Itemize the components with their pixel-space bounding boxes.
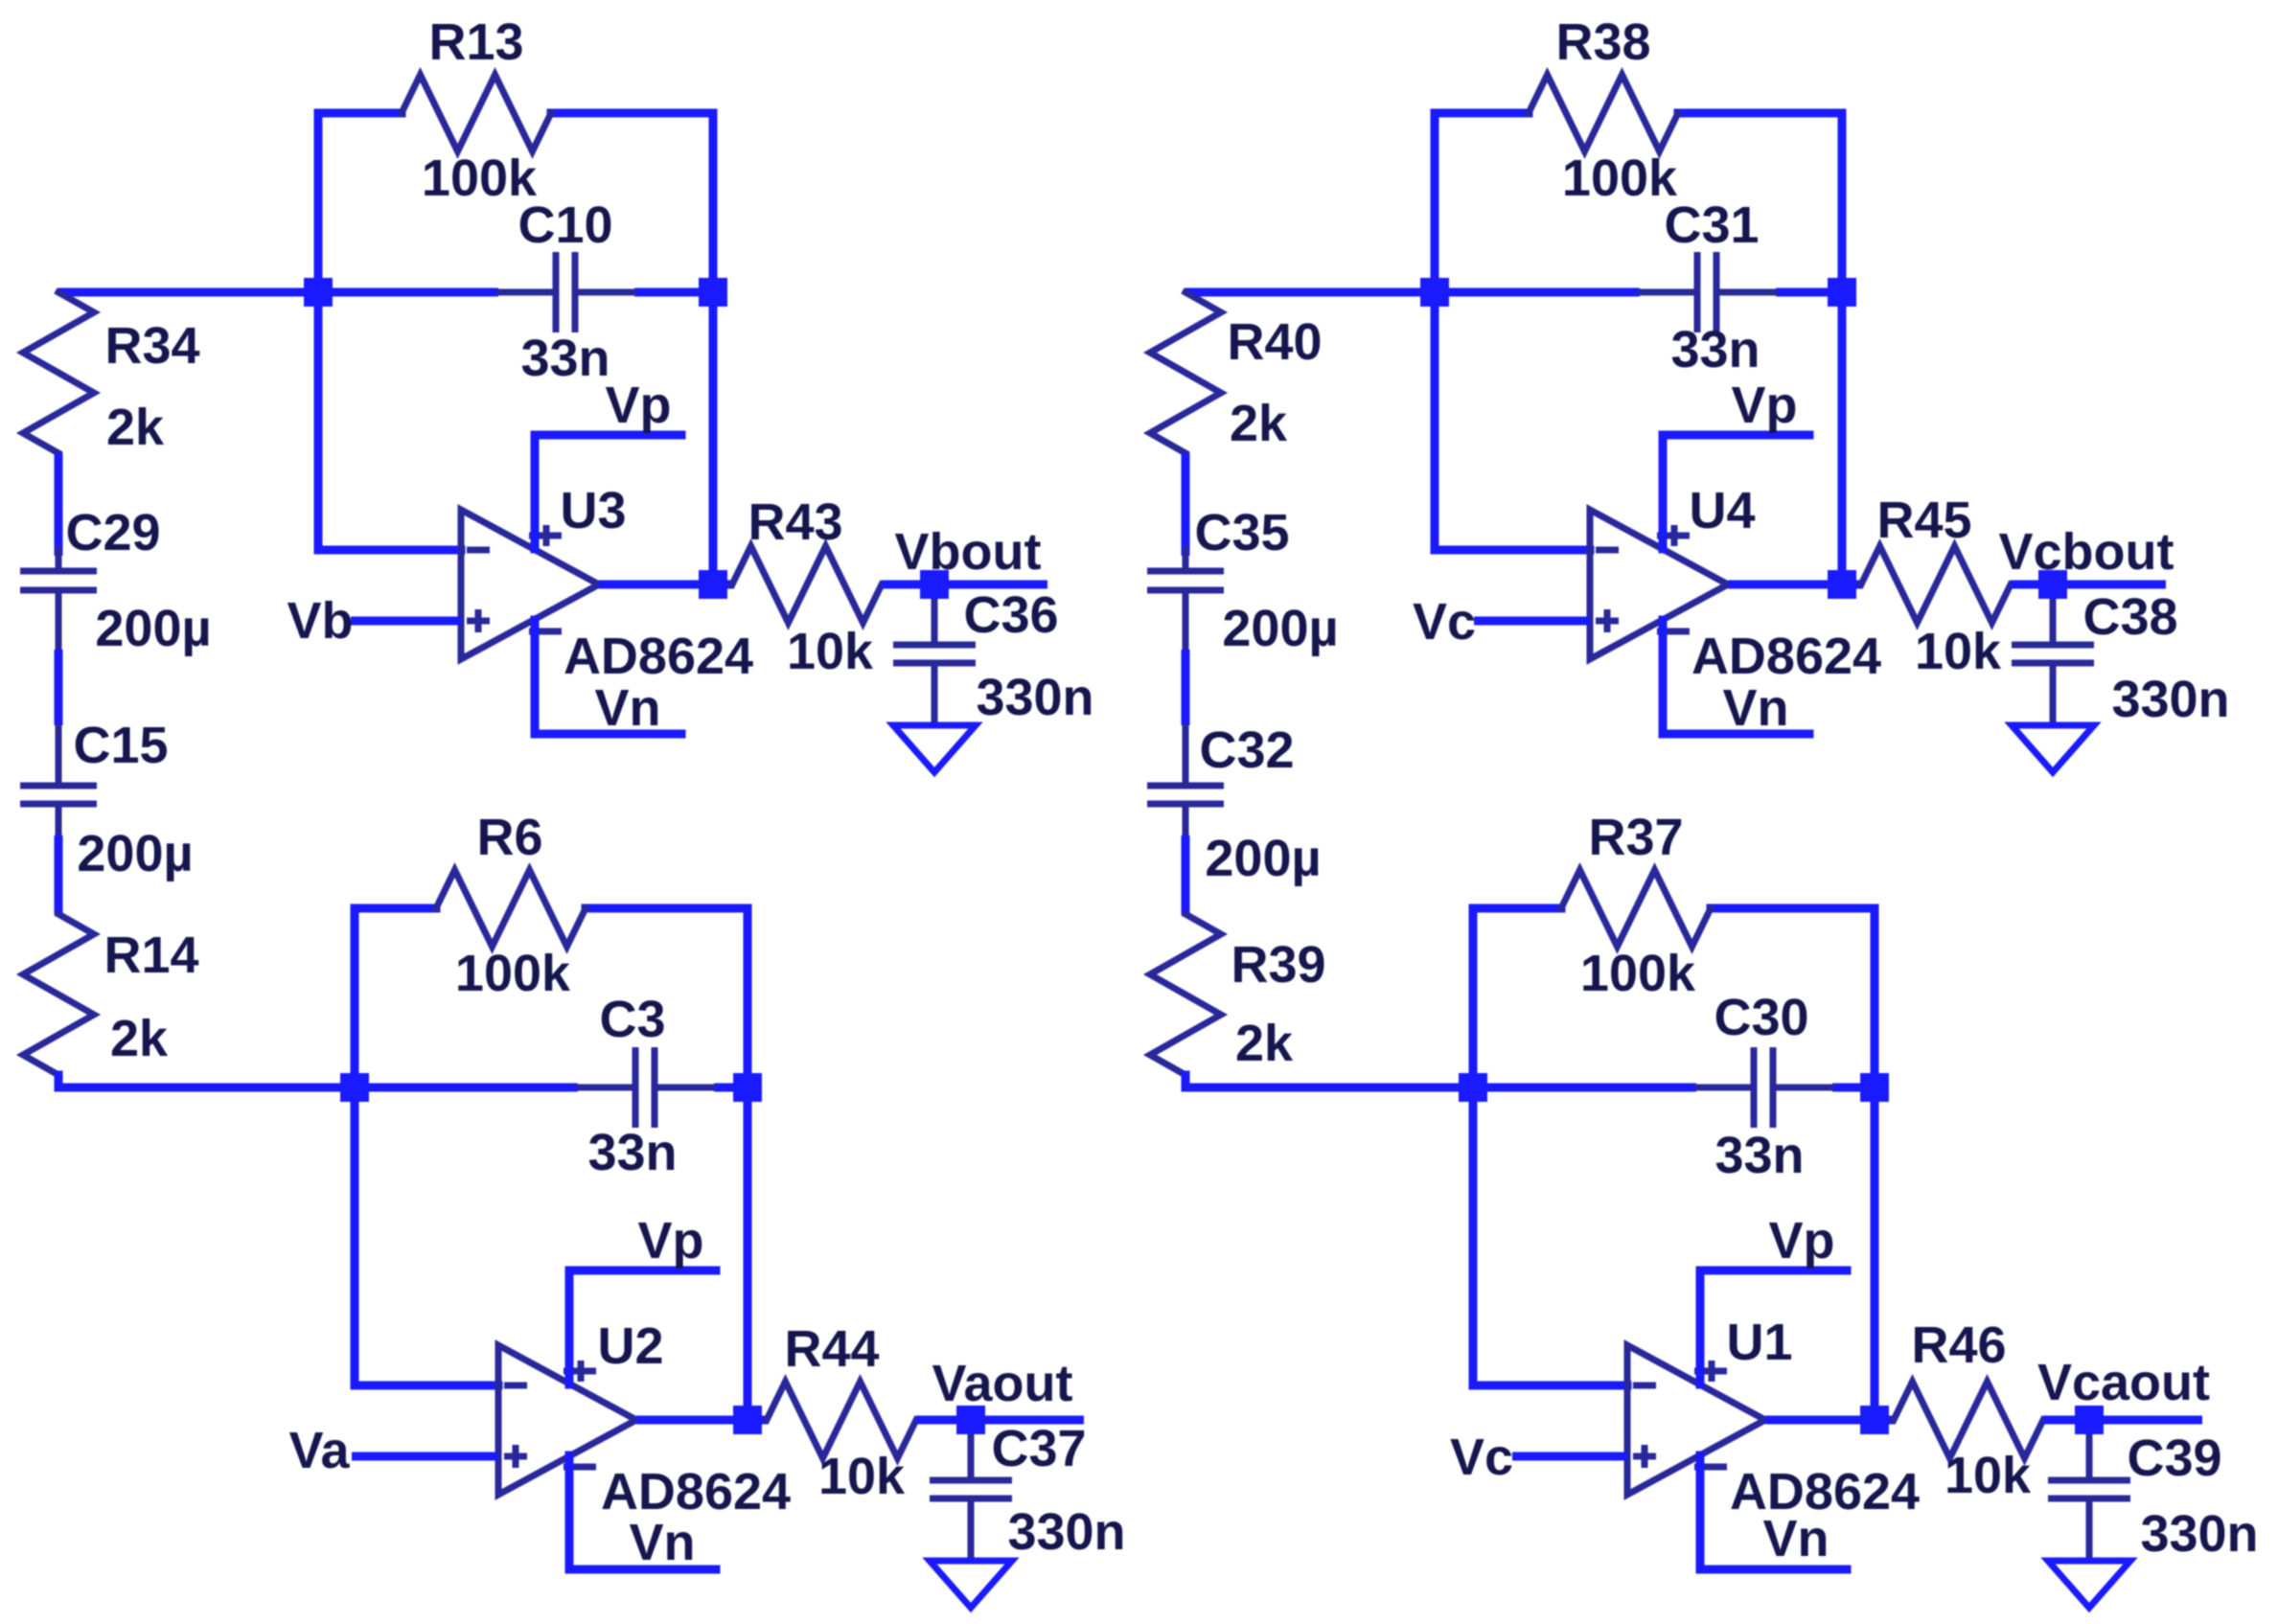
svg-text:10k: 10k (787, 623, 874, 680)
svg-text:200µ: 200µ (95, 600, 211, 657)
svg-text:10k: 10k (818, 1448, 906, 1505)
svg-text:C31: C31 (1664, 196, 1759, 254)
wire op-amp output (BL) (636, 1416, 769, 1425)
wire Vp supply (U2) (569, 1212, 716, 1384)
svg-text:AD8624: AD8624 (601, 1463, 791, 1521)
node output junction (BL) (733, 1406, 762, 1434)
svg-text:R14: R14 (104, 926, 198, 984)
svg-text:Vp: Vp (637, 1212, 703, 1269)
svg-text:100k: 100k (1580, 945, 1696, 1002)
svg-text:C32: C32 (1199, 721, 1294, 779)
resistor R14 (23, 914, 199, 1075)
ground (TR) (2012, 725, 2094, 772)
svg-text:R43: R43 (748, 493, 842, 551)
svg-text:Vcbout: Vcbout (1999, 523, 2174, 581)
resistor R45 (1861, 492, 2011, 680)
wire C29 to C15 (55, 650, 63, 725)
wire chain top (R34) (58, 288, 318, 297)
op-amp U1 (1627, 1314, 1920, 1521)
svg-text:33n: 33n (1670, 321, 1760, 378)
node junction left (BR) (1459, 1073, 1487, 1102)
wire summing node row (TR) (1435, 288, 1842, 297)
op-amp U4 (1590, 482, 1881, 685)
svg-text:200µ: 200µ (1205, 830, 1321, 887)
svg-text:2k: 2k (106, 399, 165, 456)
svg-text:200µ: 200µ (77, 825, 193, 882)
capacitor C39 (2048, 1430, 2259, 1563)
wire feedback left / inverting input (TL) (318, 113, 461, 550)
capacitor C15 (20, 717, 194, 882)
node Vbout (895, 523, 1042, 599)
svg-text:Vn: Vn (594, 679, 660, 737)
svg-text:2k: 2k (1235, 1015, 1294, 1072)
svg-text:Vc: Vc (1413, 593, 1476, 651)
capacitor C37 (930, 1420, 1126, 1561)
svg-text:Vb: Vb (287, 592, 353, 650)
wire R34 to C29 (55, 453, 63, 556)
svg-text:AD8624: AD8624 (564, 628, 753, 685)
svg-text:Vc: Vc (1450, 1429, 1513, 1486)
node Vcaout (2037, 1354, 2210, 1434)
node Vcbout (1999, 523, 2174, 599)
capacitor C36 (893, 586, 1094, 726)
svg-text:R34: R34 (104, 317, 199, 375)
svg-text:R39: R39 (1231, 936, 1325, 994)
op-amp U2 (498, 1317, 791, 1521)
svg-text:330n: 330n (2111, 671, 2229, 728)
node Vaout (932, 1355, 1072, 1434)
svg-text:Vn: Vn (629, 1514, 695, 1571)
wire Vn supply (U3) (535, 620, 681, 737)
svg-text:Vn: Vn (1722, 679, 1788, 737)
svg-text:33n: 33n (587, 1124, 677, 1181)
svg-text:R6: R6 (476, 809, 542, 866)
wire C32 to R39 (1182, 835, 1190, 914)
svg-text:C29: C29 (65, 504, 160, 561)
node junction right (TL) (699, 278, 727, 307)
svg-text:U2: U2 (597, 1317, 663, 1375)
svg-text:R13: R13 (428, 13, 523, 71)
svg-text:Vbout: Vbout (895, 523, 1042, 581)
wire op-amp output (BR) (1765, 1416, 1896, 1425)
svg-text:Va: Va (288, 1422, 350, 1479)
svg-text:C30: C30 (1714, 989, 1808, 1046)
resistor R34 (23, 292, 200, 456)
svg-text:2k: 2k (110, 1010, 169, 1067)
svg-text:100k: 100k (1562, 149, 1678, 207)
op-amp U3 (461, 482, 753, 685)
svg-text:10k: 10k (1915, 623, 2002, 680)
wire Vp supply (U3) (535, 377, 681, 549)
capacitor C35 (1147, 504, 1339, 657)
node junction right (BR) (1860, 1073, 1889, 1102)
node junction left (TL) (304, 278, 333, 307)
svg-text:R45: R45 (1876, 492, 1971, 549)
wire Vn supply (U4) (1663, 620, 1809, 737)
wire Vp supply (U1) (1700, 1212, 1847, 1384)
wire chain top (R40) (1185, 288, 1435, 297)
wire feedback left / inverting input (BR) (1473, 908, 1627, 1385)
svg-text:2k: 2k (1230, 395, 1288, 452)
svg-text:C15: C15 (73, 717, 168, 774)
svg-text:Vp: Vp (1768, 1212, 1834, 1269)
resistor R39 (1150, 914, 1326, 1075)
input Va (BL) (288, 1422, 498, 1479)
ground (TL) (893, 725, 976, 772)
svg-text:C39: C39 (2127, 1430, 2221, 1487)
wire output node (TL) (882, 581, 1047, 589)
node output junction (BR) (1860, 1406, 1889, 1434)
input Vc (TR) (1413, 593, 1590, 651)
wire chain bottom (R39) (1185, 1075, 1473, 1087)
wire feedback right (TL) (551, 113, 713, 584)
ground (BL) (930, 1561, 1012, 1608)
resistor R6 (436, 809, 586, 1002)
capacitor C3 (576, 991, 716, 1181)
svg-text:C36: C36 (963, 586, 1058, 644)
svg-text:U4: U4 (1689, 482, 1755, 539)
svg-text:Vaout: Vaout (932, 1355, 1072, 1412)
resistor R37 (1561, 809, 1711, 1002)
wire op-amp output (TL) (599, 581, 734, 589)
wire feedback right (BL) (586, 908, 748, 1420)
resistor R13 (402, 13, 551, 207)
wire output node (BR) (2043, 1416, 2202, 1425)
svg-text:C3: C3 (599, 991, 665, 1048)
svg-text:33n: 33n (1714, 1127, 1804, 1184)
wire Vn supply (U1) (1700, 1455, 1847, 1569)
resistor R43 (732, 493, 882, 680)
wire feedback right (BR) (1711, 908, 1875, 1420)
svg-text:10k: 10k (1944, 1447, 2032, 1504)
wire summing node row (BR) (1473, 1084, 1875, 1092)
capacitor C31 (1638, 196, 1778, 378)
svg-text:Vn: Vn (1762, 1510, 1829, 1567)
resistor R44 (767, 1320, 916, 1505)
svg-text:U1: U1 (1726, 1314, 1792, 1371)
svg-text:330n: 330n (2140, 1505, 2258, 1563)
node junction left (BL) (340, 1073, 369, 1102)
svg-text:AD8624: AD8624 (1691, 628, 1881, 685)
svg-text:C35: C35 (1194, 504, 1289, 561)
wire output node (TR) (2011, 581, 2166, 589)
capacitor C30 (1694, 989, 1834, 1184)
input Vb (TL) (287, 592, 461, 650)
node junction right (TR) (1828, 278, 1856, 307)
svg-text:R38: R38 (1555, 13, 1650, 71)
wire R40 to C35 (1182, 453, 1190, 556)
resistor R38 (1529, 13, 1678, 207)
node junction left (TR) (1420, 278, 1449, 307)
resistor R40 (1150, 292, 1323, 453)
svg-text:330n: 330n (976, 669, 1093, 726)
svg-text:C38: C38 (2082, 588, 2177, 646)
svg-text:Vp: Vp (1731, 377, 1797, 434)
svg-text:U3: U3 (560, 482, 626, 539)
resistor R46 (1894, 1316, 2043, 1504)
svg-text:Vcaout: Vcaout (2037, 1354, 2210, 1411)
wire chain bottom (R14) (58, 1075, 355, 1087)
ground (BR) (2048, 1561, 2130, 1608)
svg-text:C10: C10 (518, 196, 612, 254)
svg-text:200µ: 200µ (1222, 600, 1338, 657)
svg-text:R46: R46 (1911, 1316, 2006, 1374)
wire summing node row (TL) (318, 288, 713, 297)
node output junction (TL) (699, 570, 727, 599)
wire C15 to R14 (55, 835, 63, 914)
input Vc (BR) (1450, 1429, 1627, 1486)
wire op-amp output (TR) (1728, 581, 1863, 589)
wire summing node row (BL) (355, 1084, 748, 1092)
wire feedback left / inverting input (TR) (1435, 113, 1590, 550)
capacitor C29 (20, 504, 212, 657)
wire Vp supply (U4) (1663, 377, 1809, 549)
wire feedback right (TR) (1678, 113, 1842, 584)
svg-text:R40: R40 (1227, 313, 1322, 371)
svg-text:C37: C37 (991, 1420, 1086, 1477)
capacitor C38 (2012, 588, 2230, 728)
svg-text:R44: R44 (784, 1320, 879, 1378)
wire Vn supply (U2) (569, 1455, 716, 1571)
svg-text:330n: 330n (1007, 1503, 1125, 1561)
svg-text:R37: R37 (1588, 809, 1683, 866)
wire output node (BL) (916, 1416, 1084, 1425)
wire feedback left / inverting input (BL) (355, 908, 498, 1385)
capacitor C32 (1147, 721, 1322, 887)
svg-text:100k: 100k (455, 945, 571, 1002)
node output junction (TR) (1828, 570, 1856, 599)
svg-text:33n: 33n (520, 330, 610, 387)
node junction right (BL) (733, 1073, 762, 1102)
wire C35 to C32 (1182, 650, 1190, 725)
svg-text:Vp: Vp (605, 377, 671, 434)
capacitor C10 (496, 196, 636, 387)
